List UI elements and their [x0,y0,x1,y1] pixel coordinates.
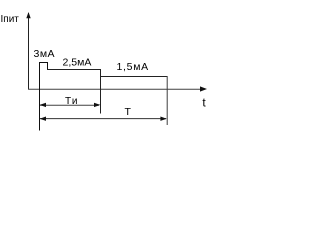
svg-text:Ти: Ти [65,96,79,107]
svg-text:3мА: 3мА [34,48,56,60]
svg-text:2,5мА: 2,5мА [63,57,92,69]
svg-text:t: t [202,95,206,109]
svg-text:1,5мА: 1,5мА [117,61,149,73]
svg-text:Т: Т [125,106,132,118]
svg-text:Iпит: Iпит [1,14,20,25]
